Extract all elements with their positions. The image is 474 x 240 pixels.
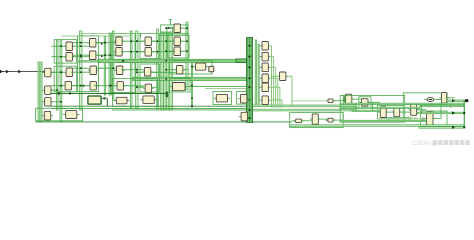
- wire rail E: [113, 31, 114, 100]
- block W1: [114, 97, 130, 104]
- block B280: [277, 72, 288, 81]
- wire band lower mid: [133, 77, 247, 80]
- wire loop c3b: [78, 62, 99, 92]
- wire hconn rows: [52, 45, 66, 47]
- wire band: [419, 127, 464, 129]
- block C6 r4: [143, 84, 154, 93]
- block R4: [392, 108, 402, 117]
- block C3 r4: [88, 81, 99, 90]
- wire band bottom mid A: [247, 105, 357, 107]
- wire br links: [292, 120, 295, 122]
- wire rail A0: [38, 62, 39, 122]
- block C7 r3: [172, 47, 183, 56]
- block C1 r4: [42, 111, 53, 120]
- block W2: [140, 96, 156, 104]
- block C3 r3: [88, 66, 99, 75]
- arrowhead in4: [38, 70, 41, 73]
- wire long y93: [50, 92, 166, 94]
- arrowhead o3: [452, 111, 455, 114]
- wire loop R2: [359, 97, 371, 108]
- block C9 r6: [260, 96, 271, 105]
- wire loop bl: [36, 108, 83, 121]
- node out corner: [465, 99, 468, 102]
- block BR2: [310, 114, 321, 124]
- block C2 r3: [64, 68, 75, 77]
- wire band: [417, 112, 464, 114]
- arrowhead in3: [18, 70, 21, 74]
- block C6 r1: [143, 37, 154, 46]
- block C9 r5: [260, 83, 271, 92]
- wire loop oval: [403, 93, 447, 105]
- block W4 gain: [193, 63, 208, 70]
- wire rail L: [255, 40, 256, 104]
- wire band: [420, 105, 464, 106]
- block C3 r1: [87, 39, 98, 48]
- wire loop c6a: [140, 34, 160, 59]
- wire rail D2: [109, 33, 111, 95]
- wire rc links: [292, 100, 328, 102]
- wire rail B: [60, 40, 62, 122]
- wire loop b240: [237, 92, 250, 105]
- block C5 r1: [114, 37, 125, 46]
- wire loop c7b: [170, 78, 191, 92]
- block R1: [343, 94, 354, 104]
- wire long y122: [36, 121, 293, 123]
- oval block: [427, 98, 434, 102]
- junction mesh dots: [80, 45, 82, 47]
- junction X right: [422, 118, 425, 121]
- wire rail I (dense band): [161, 32, 173, 110]
- wire band: [386, 118, 410, 119]
- wire long y110: [112, 109, 246, 111]
- block W5: [214, 94, 230, 102]
- arrowhead o4: [452, 126, 455, 129]
- wire input line: [0, 71, 46, 73]
- wire right vertical out: [463, 100, 465, 127]
- block B240b: [239, 112, 250, 121]
- arrowhead o2: [451, 104, 454, 107]
- block C9 r4: [260, 74, 271, 83]
- block SQ small square: [209, 66, 214, 71]
- wire loop mid: [113, 79, 158, 107]
- wire band: [340, 107, 420, 108]
- wire band thick mid: [98, 59, 247, 62]
- wire loop c2a: [54, 40, 76, 64]
- junction dot group: [60, 27, 193, 107]
- wire rail K: [191, 60, 192, 107]
- block B240a: [238, 94, 249, 103]
- wire fan C9: [270, 45, 272, 47]
- block C5 r4: [115, 82, 126, 91]
- wire long y108: [52, 108, 246, 110]
- bus vertical: [247, 38, 253, 123]
- block BR3 flat: [325, 118, 335, 122]
- block W6: [63, 110, 79, 118]
- arrowhead in2: [6, 70, 9, 74]
- wire rail H: [157, 29, 159, 110]
- wire loop w216: [213, 92, 232, 105]
- wire band: [290, 125, 464, 127]
- block C6 r2: [143, 48, 154, 57]
- block C1 r3: [42, 98, 53, 107]
- block R7: [424, 112, 435, 125]
- block C7 r4: [174, 66, 185, 75]
- wire loop c7a: [168, 35, 190, 58]
- wire rail J: [186, 22, 188, 90]
- wire band: [340, 103, 464, 104]
- wire rail F: [130, 31, 132, 108]
- bus entry band: [236, 59, 247, 62]
- block C7 r1: [172, 24, 183, 33]
- block BR1 flat: [293, 119, 304, 123]
- wire rail A: [57, 40, 59, 110]
- wire mesh top: [61, 35, 131, 37]
- block C1 r2: [42, 86, 53, 95]
- block C7 r2: [172, 37, 183, 46]
- wire band: [352, 110, 380, 111]
- wire rail C: [80, 31, 82, 110]
- block C5 r3: [114, 66, 125, 75]
- wire rail A1: [41, 62, 42, 122]
- wire top C7: [161, 32, 189, 34]
- watermark glyphs: [433, 140, 470, 145]
- block R3: [378, 107, 388, 118]
- block C6 r3: [142, 68, 153, 77]
- wire loop c3a: [78, 36, 99, 61]
- block W3: [170, 83, 188, 91]
- block R6: [439, 93, 449, 103]
- wire loop c6b: [140, 64, 160, 92]
- wire mesh rows: [73, 45, 89, 47]
- wire long y106: [50, 105, 292, 107]
- wire rail M: [258, 44, 259, 104]
- arrowhead o1: [452, 99, 455, 102]
- junction out dots: [463, 112, 465, 114]
- arrowhead in1: [0, 70, 3, 74]
- block C9 r2: [260, 52, 271, 61]
- block RC flat: [326, 99, 336, 103]
- block C2 r4: [63, 81, 74, 90]
- wire row4 arrows: [71, 85, 90, 87]
- wire right outer loop: [340, 95, 405, 122]
- wire loop R34: [378, 105, 404, 119]
- arrowhead into G1: [102, 97, 106, 100]
- block C3 r2: [87, 51, 98, 60]
- block C9 r3: [260, 63, 271, 72]
- block R5: [409, 104, 419, 115]
- wire band bottom mid B: [247, 109, 357, 111]
- wire loop c5a: [111, 34, 136, 60]
- block C2 r2: [64, 53, 75, 62]
- block G1 subsystem: [88, 96, 101, 104]
- wire loop r3: [421, 111, 448, 128]
- wire y86 mid: [188, 86, 247, 88]
- wire band: [447, 100, 464, 102]
- block C2 r1: [64, 42, 75, 51]
- wire rail D: [104, 36, 106, 95]
- wire loop c2b: [54, 66, 76, 92]
- wire loop gain: [170, 61, 213, 75]
- wire loop c7top inner: [167, 27, 173, 35]
- wire band: [340, 120, 426, 121]
- block C1 r1: [42, 68, 53, 77]
- wire loop c7top: [161, 25, 188, 36]
- wire loop br: [290, 112, 344, 127]
- wire c7 up: [169, 20, 171, 26]
- block R2: [359, 99, 370, 106]
- block C5 r2: [114, 48, 125, 57]
- wire loop c5b: [111, 63, 136, 93]
- block C9 r1: [260, 42, 271, 51]
- wire rail G: [136, 31, 138, 108]
